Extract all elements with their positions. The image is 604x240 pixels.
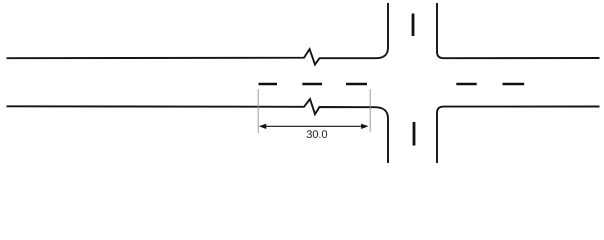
road edge bottom-right	[437, 107, 600, 164]
road edge top-left with break symbol	[7, 3, 389, 65]
dimension line	[261, 125, 366, 127]
centerline dash 3 (west approach)	[346, 83, 367, 86]
centerline dash 1 (west approach)	[259, 83, 278, 86]
dimension arrowhead right	[361, 124, 369, 129]
dimension extension line left	[257, 89, 259, 133]
centerline dash south leg	[413, 122, 416, 146]
centerline dash north leg	[412, 14, 415, 37]
centerline dash 5 (east leg)	[503, 83, 525, 86]
dimension text 30.0	[307, 130, 327, 138]
road edge top-right	[437, 3, 600, 58]
centerline dash 2 (west approach)	[302, 83, 322, 86]
centerline dash 4 (east leg)	[456, 83, 476, 86]
dimension extension line right	[369, 89, 371, 132]
road edge bottom-left with break symbol	[7, 99, 389, 163]
dimension arrowhead left	[259, 124, 267, 129]
